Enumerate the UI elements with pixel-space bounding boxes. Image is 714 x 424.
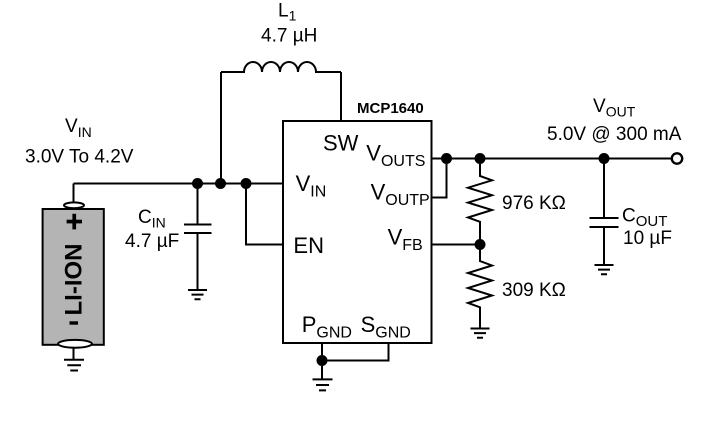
wire L1 to SW pin bbox=[340, 72, 342, 121]
battery BT1 body bbox=[43, 209, 104, 345]
wire L1 left leg bbox=[220, 72, 222, 184]
junction node dot VFB divider bbox=[475, 239, 486, 250]
svg-text:VOUT: VOUT bbox=[593, 96, 636, 120]
junction node dot VOUT/R1 bbox=[475, 153, 486, 164]
svg-text:VIN: VIN bbox=[65, 116, 92, 140]
svg-text:CIN: CIN bbox=[138, 207, 166, 231]
battery BT1 top terminal bbox=[64, 202, 84, 208]
svg-text:SW: SW bbox=[323, 131, 359, 156]
junction node dot VIN/CIN bbox=[192, 178, 203, 189]
resistor R2 309K bbox=[468, 245, 492, 328]
svg-text:MCP1640: MCP1640 bbox=[357, 100, 424, 117]
ground (C_OUT) bbox=[595, 265, 614, 274]
ground (battery) bbox=[64, 360, 84, 371]
wire battery negative lead bbox=[73, 345, 75, 359]
wire PGND to ground bbox=[321, 361, 323, 379]
IC U1 MCP1640 body bbox=[283, 121, 432, 343]
ground (C_IN) bbox=[188, 290, 207, 299]
svg-text:EN: EN bbox=[293, 233, 324, 258]
battery BT1 bottom terminal bbox=[58, 340, 92, 348]
wire battery positive lead bbox=[73, 184, 75, 203]
svg-text:5.0V @ 300 mA: 5.0V @ 300 mA bbox=[547, 124, 682, 145]
wire VOUTS rail bbox=[432, 158, 672, 160]
svg-text:COUT: COUT bbox=[622, 206, 667, 231]
wire VFB bbox=[432, 244, 481, 246]
battery minus sign bbox=[70, 321, 79, 324]
wire PGND lead bbox=[321, 343, 323, 361]
capacitor C_OUT bbox=[590, 159, 619, 265]
wire SGND lead bbox=[322, 343, 389, 361]
capacitor C_IN bbox=[184, 184, 212, 290]
junction node dot VOUTS/VOUTP bbox=[441, 153, 452, 164]
wire EN bbox=[246, 184, 283, 245]
svg-text:309 KΩ: 309 KΩ bbox=[502, 280, 566, 301]
svg-text:976 KΩ: 976 KΩ bbox=[502, 193, 566, 214]
ground (R2) bbox=[471, 329, 490, 338]
junction node dot VOUT/COUT bbox=[599, 153, 610, 164]
terminal VOUT open circle bbox=[672, 153, 682, 163]
svg-text:10 µF: 10 µF bbox=[623, 228, 672, 249]
svg-text:4.7 µH: 4.7 µH bbox=[261, 26, 317, 47]
resistor R1 976K bbox=[468, 159, 492, 245]
junction node dot VIN/L1 bbox=[215, 178, 226, 189]
svg-text:LI-ION: LI-ION bbox=[60, 244, 87, 316]
wire VOUTP bbox=[432, 159, 447, 198]
junction node dot PGND/SGND bbox=[317, 355, 328, 366]
inductor L1 bbox=[221, 62, 341, 72]
ground (PGND) bbox=[313, 379, 333, 390]
wire VIN rail bbox=[74, 183, 284, 185]
svg-text:4.7 µF: 4.7 µF bbox=[125, 231, 179, 252]
junction node dot VIN/EN bbox=[241, 178, 252, 189]
battery plus sign bbox=[67, 220, 82, 224]
svg-text:3.0V To 4.2V: 3.0V To 4.2V bbox=[25, 147, 134, 168]
svg-text:L1: L1 bbox=[278, 1, 297, 24]
